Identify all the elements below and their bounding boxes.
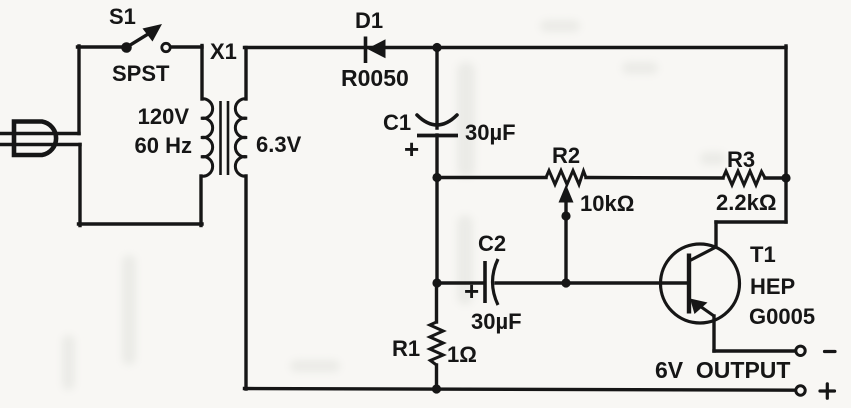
svg-text:C2: C2 bbox=[478, 231, 506, 256]
svg-text:30µF: 30µF bbox=[465, 120, 516, 145]
svg-text:+: + bbox=[464, 276, 479, 306]
svg-text:D1: D1 bbox=[355, 8, 383, 33]
svg-text:30µF: 30µF bbox=[471, 309, 522, 334]
svg-text:C1: C1 bbox=[383, 110, 411, 135]
svg-text:1Ω: 1Ω bbox=[447, 342, 477, 367]
svg-text:X1: X1 bbox=[210, 39, 237, 64]
svg-text:60 Hz: 60 Hz bbox=[135, 133, 192, 158]
svg-text:120V: 120V bbox=[138, 104, 190, 129]
svg-text:R1: R1 bbox=[392, 336, 420, 361]
svg-text:R2: R2 bbox=[552, 143, 580, 168]
svg-text:10kΩ: 10kΩ bbox=[580, 191, 634, 216]
svg-text:S1: S1 bbox=[109, 4, 136, 29]
svg-text:+: + bbox=[404, 134, 419, 164]
svg-text:G0005: G0005 bbox=[749, 304, 815, 329]
svg-text:6V OUTPUT: 6V OUTPUT bbox=[655, 357, 790, 383]
svg-text:SPST: SPST bbox=[112, 61, 170, 86]
svg-text:2.2kΩ: 2.2kΩ bbox=[716, 190, 776, 215]
svg-text:T1: T1 bbox=[750, 242, 776, 267]
svg-text:R0050: R0050 bbox=[341, 65, 409, 91]
svg-text:HEP: HEP bbox=[750, 274, 795, 299]
svg-text:6.3V: 6.3V bbox=[256, 132, 302, 157]
svg-text:R3: R3 bbox=[727, 147, 755, 172]
